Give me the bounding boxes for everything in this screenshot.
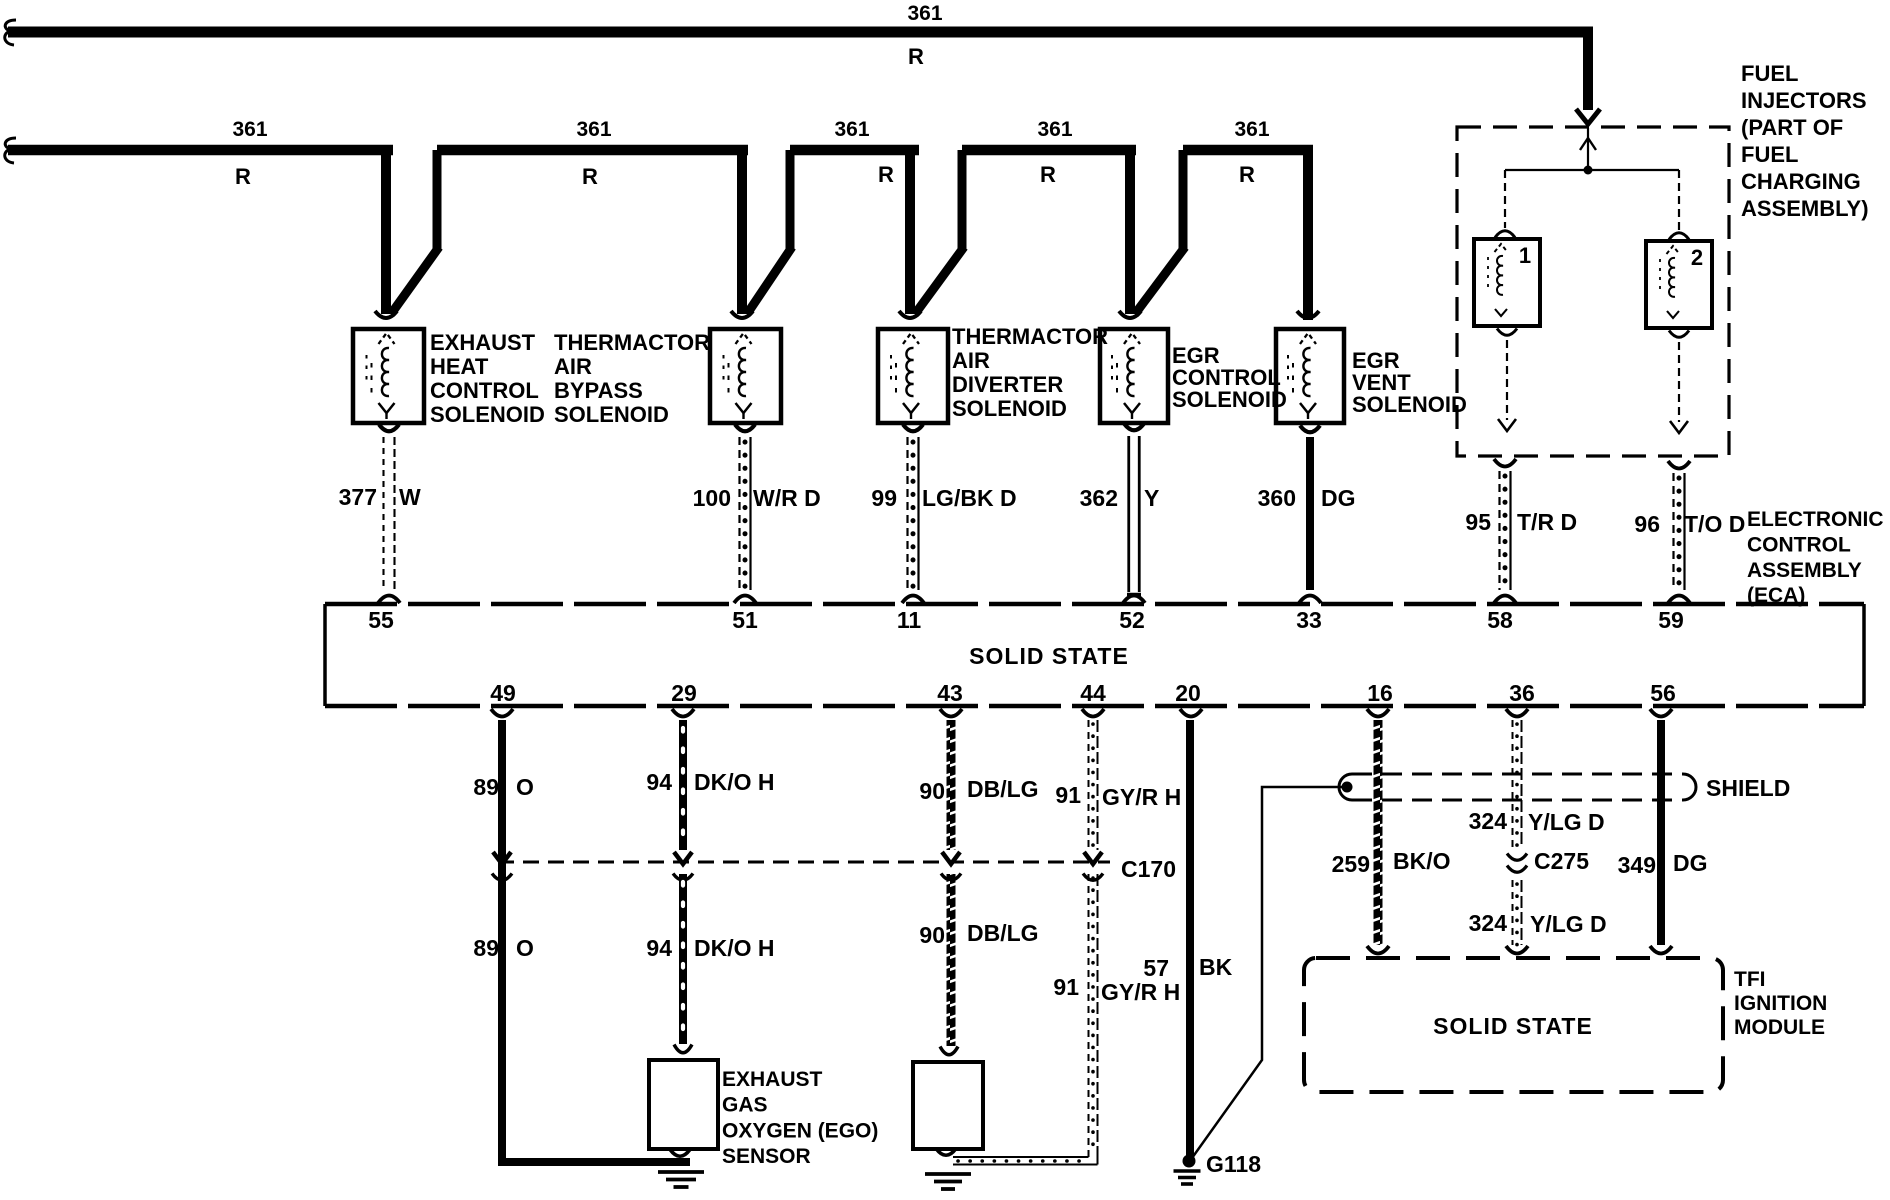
svg-text:361: 361 xyxy=(232,118,267,141)
svg-text:GY/R H: GY/R H xyxy=(1101,979,1180,1005)
svg-text:AIR: AIR xyxy=(554,354,592,379)
svg-text:THERMACTOR: THERMACTOR xyxy=(554,330,710,355)
svg-text:DK/O H: DK/O H xyxy=(694,769,775,795)
svg-text:SOLENOID: SOLENOID xyxy=(430,402,545,427)
svg-text:O: O xyxy=(516,774,534,800)
svg-text:324: 324 xyxy=(1469,910,1508,936)
svg-text:SHIELD: SHIELD xyxy=(1706,775,1790,801)
svg-text:100: 100 xyxy=(693,485,731,511)
svg-text:C170: C170 xyxy=(1121,856,1176,882)
svg-text:OXYGEN (EGO): OXYGEN (EGO) xyxy=(722,1119,878,1142)
svg-text:99: 99 xyxy=(871,485,897,511)
svg-text:29: 29 xyxy=(671,680,697,706)
svg-text:56: 56 xyxy=(1650,680,1676,706)
svg-text:BK/O: BK/O xyxy=(1393,848,1451,874)
svg-text:20: 20 xyxy=(1175,680,1201,706)
svg-text:MODULE: MODULE xyxy=(1734,1016,1825,1039)
svg-text:T/R D: T/R D xyxy=(1517,509,1577,535)
svg-text:DB/LG: DB/LG xyxy=(967,776,1039,802)
svg-text:57: 57 xyxy=(1143,955,1169,981)
svg-text:GAS: GAS xyxy=(722,1094,768,1117)
svg-text:361: 361 xyxy=(1234,118,1269,141)
svg-text:R: R xyxy=(1239,162,1255,187)
svg-text:43: 43 xyxy=(937,680,963,706)
svg-text:SOLID STATE: SOLID STATE xyxy=(1433,1013,1593,1039)
svg-text:SOLENOID: SOLENOID xyxy=(554,402,669,427)
svg-text:55: 55 xyxy=(368,607,394,633)
svg-text:95: 95 xyxy=(1465,509,1491,535)
svg-text:ELECTRONIC: ELECTRONIC xyxy=(1747,508,1884,531)
svg-text:49: 49 xyxy=(490,680,516,706)
svg-text:R: R xyxy=(1040,162,1056,187)
svg-text:R: R xyxy=(908,44,924,69)
svg-text:361: 361 xyxy=(907,2,942,25)
svg-text:EXHAUST: EXHAUST xyxy=(722,1068,823,1091)
svg-text:44: 44 xyxy=(1080,680,1106,706)
svg-text:90: 90 xyxy=(919,922,945,948)
svg-text:BK: BK xyxy=(1199,954,1233,980)
svg-text:R: R xyxy=(878,162,894,187)
svg-text:CONTROL: CONTROL xyxy=(430,378,539,403)
svg-text:89: 89 xyxy=(473,774,499,800)
svg-text:SOLENOID: SOLENOID xyxy=(952,396,1067,421)
svg-text:C275: C275 xyxy=(1534,848,1589,874)
svg-text:Y/LG D: Y/LG D xyxy=(1530,911,1607,937)
svg-text:59: 59 xyxy=(1658,607,1684,633)
svg-text:96: 96 xyxy=(1634,511,1660,537)
svg-text:36: 36 xyxy=(1509,680,1535,706)
svg-text:58: 58 xyxy=(1487,607,1513,633)
svg-text:FUEL: FUEL xyxy=(1741,142,1798,167)
svg-text:16: 16 xyxy=(1367,680,1393,706)
svg-text:AIR: AIR xyxy=(952,348,990,373)
svg-text:W: W xyxy=(399,484,421,510)
svg-text:89: 89 xyxy=(473,935,499,961)
svg-text:G118: G118 xyxy=(1206,1151,1261,1177)
svg-text:94: 94 xyxy=(646,935,672,961)
svg-text:SOLID STATE: SOLID STATE xyxy=(969,643,1129,669)
svg-text:DIVERTER: DIVERTER xyxy=(952,372,1063,397)
svg-text:33: 33 xyxy=(1296,607,1322,633)
svg-text:CHARGING: CHARGING xyxy=(1741,169,1861,194)
svg-text:FUEL: FUEL xyxy=(1741,61,1798,86)
svg-text:THERMACTOR: THERMACTOR xyxy=(952,324,1108,349)
svg-text:90: 90 xyxy=(919,778,945,804)
svg-text:LG/BK D: LG/BK D xyxy=(922,485,1017,511)
svg-text:GY/R H: GY/R H xyxy=(1102,784,1181,810)
svg-text:R: R xyxy=(235,164,251,189)
svg-text:362: 362 xyxy=(1080,485,1118,511)
svg-text:Y/LG D: Y/LG D xyxy=(1528,809,1605,835)
svg-text:INJECTORS: INJECTORS xyxy=(1741,88,1867,113)
svg-text:BYPASS: BYPASS xyxy=(554,378,643,403)
svg-text:91: 91 xyxy=(1053,974,1079,1000)
svg-text:O: O xyxy=(516,935,534,961)
svg-text:94: 94 xyxy=(646,769,672,795)
svg-text:Y: Y xyxy=(1144,485,1159,511)
svg-text:349: 349 xyxy=(1618,852,1656,878)
svg-text:DB/LG: DB/LG xyxy=(967,920,1039,946)
svg-text:ASSEMBLY: ASSEMBLY xyxy=(1747,559,1862,582)
svg-text:T/O D: T/O D xyxy=(1684,511,1745,537)
svg-text:DG: DG xyxy=(1321,485,1356,511)
svg-text:1: 1 xyxy=(1519,243,1531,268)
svg-text:361: 361 xyxy=(1037,118,1072,141)
svg-text:HEAT: HEAT xyxy=(430,354,489,379)
svg-text:SOLENOID: SOLENOID xyxy=(1172,387,1287,412)
svg-text:DK/O H: DK/O H xyxy=(694,935,775,961)
svg-text:(PART OF: (PART OF xyxy=(1741,115,1843,140)
svg-text:360: 360 xyxy=(1258,485,1296,511)
svg-text:R: R xyxy=(582,164,598,189)
svg-text:IGNITION: IGNITION xyxy=(1734,992,1827,1015)
svg-text:361: 361 xyxy=(576,118,611,141)
svg-text:377: 377 xyxy=(339,484,377,510)
svg-text:DG: DG xyxy=(1673,850,1708,876)
svg-text:361: 361 xyxy=(834,118,869,141)
svg-text:259: 259 xyxy=(1332,851,1370,877)
svg-text:2: 2 xyxy=(1691,245,1703,270)
svg-text:SOLENOID: SOLENOID xyxy=(1352,392,1467,417)
svg-text:SENSOR: SENSOR xyxy=(722,1145,811,1168)
svg-text:324: 324 xyxy=(1469,808,1508,834)
svg-text:ASSEMBLY): ASSEMBLY) xyxy=(1741,196,1869,221)
svg-text:91: 91 xyxy=(1055,782,1081,808)
svg-text:TFI: TFI xyxy=(1734,968,1766,991)
svg-text:EXHAUST: EXHAUST xyxy=(430,330,536,355)
svg-text:11: 11 xyxy=(897,607,922,633)
svg-text:52: 52 xyxy=(1119,607,1145,633)
svg-text:CONTROL: CONTROL xyxy=(1747,533,1851,556)
svg-text:51: 51 xyxy=(732,607,758,633)
svg-text:W/R D: W/R D xyxy=(753,485,821,511)
